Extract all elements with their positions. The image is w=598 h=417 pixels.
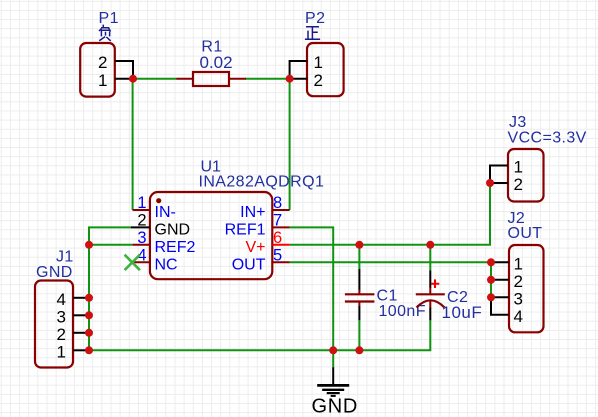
wire R1-P2 net xyxy=(245,78,290,80)
wire C1 bottom lead xyxy=(358,320,360,350)
connector J1 xyxy=(35,249,89,368)
R1 body xyxy=(193,72,229,86)
svg-text:OUT: OUT xyxy=(232,256,266,273)
svg-text:3: 3 xyxy=(57,308,66,327)
svg-text:P2: P2 xyxy=(305,10,325,27)
C2 top lead xyxy=(429,271,431,289)
junction J2 pin1 xyxy=(487,258,495,266)
wire C2 top lead xyxy=(429,245,431,271)
svg-text:1: 1 xyxy=(514,255,523,274)
wire REF2 to left bus xyxy=(89,244,133,246)
pin 8 stub xyxy=(272,209,289,211)
C2 bottom lead xyxy=(429,308,431,321)
J1 pin 4 stub xyxy=(73,297,89,299)
svg-text:P1: P1 xyxy=(99,10,119,27)
J1 pin 2 stub xyxy=(73,332,89,334)
junction GND/REF2 xyxy=(85,241,93,249)
connector J3 xyxy=(490,114,587,201)
svg-text:IN+: IN+ xyxy=(240,204,265,221)
junction J1 pin2 xyxy=(85,329,93,337)
pin 4 stub xyxy=(133,261,150,263)
J2 pin 1 stub xyxy=(491,261,509,263)
J1 body xyxy=(35,281,73,368)
C1 top plate xyxy=(345,293,375,295)
junction C1 bottom xyxy=(355,346,363,354)
J1 pin 3 stub xyxy=(73,314,89,316)
ground stem xyxy=(332,367,334,385)
wire C1 top lead xyxy=(358,245,360,269)
svg-text:NC: NC xyxy=(155,256,178,273)
J2 pin 2 stub xyxy=(491,279,509,281)
svg-text:2: 2 xyxy=(98,53,107,72)
wire GND pin to left bus xyxy=(89,227,132,244)
J3 pin 2 wire xyxy=(490,182,508,184)
svg-text:J1: J1 xyxy=(56,249,74,266)
connector P2 xyxy=(290,10,344,96)
pin 6 V+ xyxy=(245,229,289,256)
pin 6 stub (power) xyxy=(272,244,289,246)
svg-text:GND: GND xyxy=(155,222,191,239)
junction J1 pin4 xyxy=(85,294,93,302)
svg-text:2: 2 xyxy=(57,325,66,344)
junction J3 pin2 xyxy=(486,179,494,187)
pin 5 stub xyxy=(272,261,289,263)
junction R1/P2/IN+ xyxy=(286,75,294,83)
svg-text:10uF: 10uF xyxy=(442,303,483,322)
svg-text:2: 2 xyxy=(514,175,523,194)
wire bottom GND bus xyxy=(89,320,430,350)
R1 left lead xyxy=(177,78,194,80)
wire IN+ vertical xyxy=(289,79,291,210)
svg-text:1: 1 xyxy=(137,194,146,212)
wire J1 vertical bus xyxy=(88,245,90,350)
P2 body xyxy=(307,43,344,96)
P1 pin 2 wire xyxy=(115,61,133,79)
svg-text:7: 7 xyxy=(273,212,282,230)
svg-text:GND: GND xyxy=(312,395,359,417)
pin 7 REF1 xyxy=(225,212,290,239)
ground bar 4 xyxy=(331,395,336,397)
ground bar 1 xyxy=(317,384,349,387)
ground bar 2 xyxy=(322,389,344,391)
no-connect X flag xyxy=(125,255,140,270)
svg-text:4: 4 xyxy=(514,307,523,326)
junction C2 top xyxy=(426,241,434,249)
svg-text:REF2: REF2 xyxy=(155,239,196,256)
C2 plus sign xyxy=(431,279,440,288)
capacitor C2 polarized xyxy=(416,271,482,322)
svg-text:GND: GND xyxy=(36,264,73,281)
J3 pin 1 wire xyxy=(490,166,508,184)
junction J1 pin1 xyxy=(85,346,93,354)
wire REF1 to GND xyxy=(290,227,334,350)
value 正 (CJK glyph) xyxy=(305,27,320,40)
pin 8 IN+ xyxy=(240,194,289,221)
connector P1 xyxy=(80,10,133,97)
U1 body xyxy=(150,192,272,279)
svg-text:3: 3 xyxy=(514,290,523,309)
svg-text:1: 1 xyxy=(514,158,523,177)
op-amp U1 INA282AQDRQ1 xyxy=(150,159,324,280)
wire OUT net xyxy=(290,261,491,263)
pin 3 stub xyxy=(133,244,150,246)
J2 pin 3 stub xyxy=(491,296,509,298)
C1 bottom plate xyxy=(345,300,375,302)
value 负 (CJK glyph) xyxy=(99,25,111,41)
svg-text:1: 1 xyxy=(98,71,107,90)
pin 2 stub xyxy=(131,226,150,228)
junction C1 top xyxy=(355,241,363,249)
svg-text:5: 5 xyxy=(273,247,282,265)
C2 curved plate xyxy=(417,300,445,307)
svg-text:REF1: REF1 xyxy=(225,222,266,239)
svg-text:IN-: IN- xyxy=(155,204,176,221)
connector J2 xyxy=(491,210,544,332)
pin 1 IN- xyxy=(133,194,176,221)
svg-text:2: 2 xyxy=(314,71,323,90)
pin 4 NC with no-connect flag xyxy=(125,247,178,274)
U1 pin-1 marker dot xyxy=(156,198,161,203)
svg-text:2: 2 xyxy=(514,272,523,291)
C1 top lead xyxy=(358,269,360,291)
P1 body xyxy=(80,43,115,97)
capacitor C1 xyxy=(345,269,426,320)
svg-text:3: 3 xyxy=(137,229,146,247)
svg-text:0.02: 0.02 xyxy=(200,53,233,72)
wire P1-R1 net xyxy=(133,78,177,80)
svg-text:V+: V+ xyxy=(245,239,265,256)
svg-text:2: 2 xyxy=(137,212,146,230)
J3 body xyxy=(508,149,544,202)
pin 2 GND xyxy=(131,212,190,239)
junction P1/R1/IN- xyxy=(129,75,137,83)
J2 pin 4 wire xyxy=(491,297,509,315)
svg-text:C1: C1 xyxy=(377,288,398,305)
C2 top plate xyxy=(416,293,445,295)
R1 right lead xyxy=(229,78,246,80)
pin 1 stub xyxy=(133,209,150,211)
svg-text:6: 6 xyxy=(273,229,282,247)
ground bar 3 xyxy=(327,392,340,394)
svg-text:VCC=3.3V: VCC=3.3V xyxy=(508,130,587,147)
svg-text:8: 8 xyxy=(273,194,282,212)
P2 pin 2 wire xyxy=(290,78,308,80)
junction J1 pin3 xyxy=(85,311,93,319)
P2 pin 1 wire xyxy=(290,61,308,79)
pin 3 REF2 xyxy=(133,229,196,256)
resistor R1 xyxy=(177,39,247,87)
junction GND symbol xyxy=(329,346,337,354)
junction J2 pin2 xyxy=(487,276,495,284)
wire J2 vertical bus xyxy=(490,262,492,297)
junction J2 pin3 xyxy=(487,293,495,301)
pin 5 OUT xyxy=(232,247,290,274)
wire GND symbol stem green xyxy=(332,350,334,367)
J2 body xyxy=(509,245,544,332)
J1 pin 1 stub xyxy=(73,349,89,351)
svg-text:OUT: OUT xyxy=(508,225,543,242)
svg-text:4: 4 xyxy=(57,290,66,309)
ground symbol GND xyxy=(312,367,359,417)
svg-text:1: 1 xyxy=(57,343,66,362)
wire IN- vertical xyxy=(132,79,134,210)
wire V+ net xyxy=(290,183,490,245)
pin 7 stub xyxy=(272,226,289,228)
svg-text:1: 1 xyxy=(314,53,323,72)
svg-text:INA282AQDRQ1: INA282AQDRQ1 xyxy=(199,174,325,191)
C1 bottom lead xyxy=(358,306,360,320)
P1 pin 1 wire xyxy=(115,78,133,80)
